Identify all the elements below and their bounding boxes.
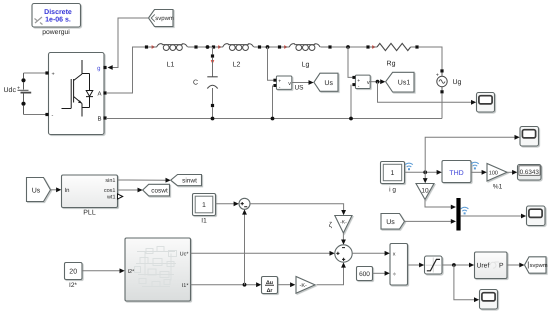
streaming badge (i g) [405,163,413,170]
THD block [442,161,471,183]
scope Scope B [520,127,539,147]
junction node (scope A tap) [376,80,380,84]
svg-text:Us: Us [324,80,333,87]
DC source Udc [4,73,32,115]
measurement block i g [381,162,405,194]
scope Scope A [477,93,495,113]
wire I1 to sum1 [216,201,239,206]
svg-text:g: g [97,66,100,72]
wire zeta to sum2 [341,233,346,245]
svg-text:Us1: Us1 [398,79,411,86]
junction node (Vmeas- to bottom rail) [349,117,353,121]
AC source Ug [436,69,462,93]
svg-text:ζ: ζ [329,221,332,229]
voltage measurement US [268,47,305,119]
voltage measurement Ug meter [348,47,370,119]
svg-text:20: 20 [69,269,77,276]
svg-text:0.6343: 0.6343 [520,169,540,176]
mux [456,198,460,231]
junction node (scope D tap) [452,263,456,267]
Goto tag Us1 [386,72,414,92]
svg-text:-K-: -K- [300,283,308,289]
wire saturation to Uref [442,263,474,268]
wire svpwm to gate g [108,18,149,70]
wire I1* to du/dr [191,282,262,287]
sum block sum1 [239,198,250,209]
svg-text:Us: Us [32,187,41,194]
svg-text:%1: %1 [493,184,503,191]
svg-text:-K-: -K- [340,220,347,226]
gain -K- [296,277,315,294]
svg-text:L2: L2 [233,62,241,69]
svg-text:Discrete: Discrete [44,8,72,16]
gain 100 (%1) [487,164,507,191]
subsystem PLL [62,175,118,217]
wire sin1 to sinwt [118,178,171,183]
From tag Us (mux input) [381,214,405,230]
capacitor C branch [193,47,218,119]
wire cos1 to coswt [118,188,143,193]
constant block 600 [357,267,373,281]
svg-text:+: + [17,86,20,92]
svg-text:svpwm: svpwm [155,16,174,22]
wire 20 to subsystem [82,268,125,273]
junction node (i g tap) [423,170,427,174]
divide block [390,244,408,286]
junction node (US- to bottom rail) [271,117,275,121]
svg-text:Ug: Ug [453,79,462,86]
svg-text:v: v [288,81,291,87]
wire i g tap to gain 10 [423,172,428,183]
IGBT symbol [62,60,83,117]
junction node (V meas tap) [346,45,350,49]
svg-text:sin1: sin1 [105,178,115,184]
wire junction to scope D [454,265,479,302]
junction node (US tap) [266,45,270,49]
wire sum1 to zeta gain [250,204,346,215]
svg-text:Uc*: Uc* [180,252,190,258]
scope Scope D [480,290,498,310]
wire Uc* to sum2 [191,251,335,256]
svg-text:Uref: Uref [477,263,490,270]
junction node (C to bottom rail) [211,117,215,121]
inductor L2 [212,44,261,69]
Goto tag sinwt [171,175,202,186]
wire Lg to Rg [332,46,367,48]
wire Rg to Ug [419,47,442,69]
svg-text:Rg: Rg [387,61,396,68]
wire Us1 junction to scope A [378,82,477,105]
junction node (C tap) [206,45,210,49]
wire mux to scope C [461,214,527,219]
svg-text:coswt: coswt [151,187,168,194]
svg-text:powergui: powergui [42,29,70,36]
wire L2 to Lg [261,46,278,48]
wt1 unconnected output arrow [118,194,123,199]
svg-text:Δr: Δr [267,288,273,294]
svg-text:wt1: wt1 [106,195,116,201]
svg-text:10: 10 [421,187,429,194]
svg-text:THD: THD [449,170,463,177]
svg-text:+: + [52,72,55,78]
wire bridge A to rail [107,47,145,93]
subsystem current controller [125,238,191,301]
svg-text:P: P [499,263,504,270]
wire Us to mux [405,219,457,224]
wire 10 to mux [425,200,456,210]
display 0.6343 [518,165,542,181]
wire Vmeas to Us1 goto [370,79,385,84]
IGBT bridge U1 [45,53,106,135]
wire Us to PLL [51,187,62,192]
streaming badge (THD) [471,162,479,169]
From tag svpwm (top, flipped) [149,10,174,27]
svg-text:v: v [367,80,370,86]
svg-text:600: 600 [359,271,370,278]
wire bridge B bottom rail [107,118,442,120]
svg-text:x: x [393,252,396,258]
wire Udc+ to bridge [24,72,46,74]
svg-text:+: + [436,73,439,79]
Goto tag svpwm [525,257,548,273]
derivative block du/dr [262,277,278,295]
svg-text:svpwm: svpwm [530,263,548,269]
saturation block [425,256,443,274]
wire Ug to bottom rail [441,93,443,118]
wire 100 to display [507,170,517,175]
svg-text:I2*: I2* [128,269,136,275]
svg-text:Us: Us [386,219,395,226]
junction node (I1* feedback tap) [243,283,247,287]
wire 600 to product [373,271,390,276]
svg-text:A: A [97,91,101,98]
svg-text:1: 1 [391,170,395,177]
svg-text:1: 1 [202,202,206,209]
PWM generator Uref P [475,252,508,279]
svg-text:B: B [97,116,101,123]
svg-text:100: 100 [489,171,498,177]
svg-text:-: - [52,113,54,119]
wire -K- to sum2 [317,262,346,284]
inductor Lg [278,44,332,69]
wire i g to THD [405,170,442,175]
scope Scope C [527,206,546,226]
svg-text:I1*: I1* [182,283,190,289]
constant block I1 [193,194,216,225]
wire i g tap to scope B [425,135,520,172]
sum block sum2 [335,245,352,262]
wire Uref to svpwm goto [507,263,525,268]
svg-text:Lg: Lg [302,62,310,69]
svg-text:PLL: PLL [83,210,96,217]
svg-text:L1: L1 [167,62,175,69]
powergui block [32,4,81,37]
inductor L1 [145,44,198,69]
constant block 20 [65,263,83,289]
svg-text:sinwt: sinwt [182,178,197,185]
svg-text:I1: I1 [201,218,207,225]
wire Udc- to bridge [24,114,46,116]
streaming badge (mux) [461,207,469,214]
wire divide to saturation [408,263,425,268]
Goto tag Us [314,73,338,91]
svg-text:In: In [65,187,70,194]
svg-text:1e-06 s.: 1e-06 s. [45,17,71,24]
Goto tag coswt [143,184,170,196]
svg-text:Udc: Udc [4,86,17,94]
svg-text:US: US [294,85,304,92]
wire du/dr to -K- [278,282,296,287]
wire US to Us goto [292,80,314,85]
wire THD to gain 100 [471,170,487,175]
svg-text:C: C [193,80,198,87]
svg-text:cos1: cos1 [104,188,116,194]
gain 10 (down) [416,184,434,200]
diode symbol [82,74,93,108]
resistor Rg [366,43,418,67]
wire sum2 to product [352,251,390,256]
From tag Us (PLL input) [27,178,51,202]
wire L1 to L2 [198,46,212,48]
gain zeta -K- [329,216,352,234]
wire I1* feedback to sum1 [242,209,247,284]
svg-text:i g: i g [389,187,396,194]
svg-text:I2*: I2* [69,282,77,289]
